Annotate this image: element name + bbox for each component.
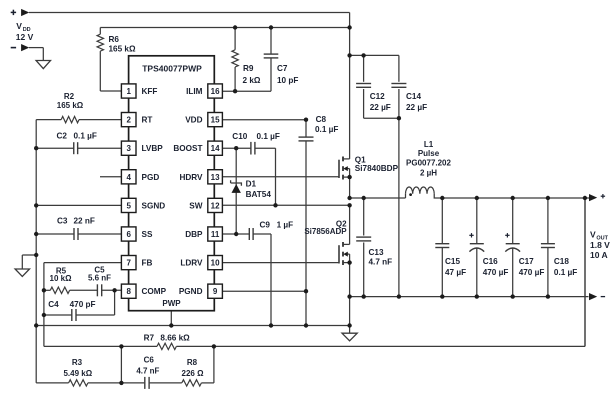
svg-text:6: 6 — [126, 230, 131, 239]
svg-text:0.1 µF: 0.1 µF — [257, 132, 280, 141]
svg-text:2 µH: 2 µH — [420, 168, 437, 177]
svg-text:PWP: PWP — [162, 299, 181, 308]
svg-text:COMP: COMP — [142, 287, 167, 296]
svg-text:3: 3 — [126, 144, 131, 153]
svg-text:14: 14 — [211, 144, 220, 153]
svg-text:13: 13 — [211, 173, 220, 182]
svg-text:22 µF: 22 µF — [370, 103, 391, 112]
svg-text:SW: SW — [189, 201, 202, 210]
svg-text:16: 16 — [211, 87, 220, 96]
svg-text:1: 1 — [126, 87, 131, 96]
svg-text:TPS40077PWP: TPS40077PWP — [142, 64, 202, 74]
svg-text:C13: C13 — [369, 248, 384, 257]
svg-text:ILIM: ILIM — [186, 87, 203, 96]
svg-text:7: 7 — [126, 259, 131, 268]
svg-text:470 pF: 470 pF — [70, 300, 96, 309]
svg-text:15: 15 — [211, 116, 220, 125]
svg-text:0.1 µF: 0.1 µF — [554, 268, 577, 277]
svg-text:C15: C15 — [445, 257, 460, 266]
svg-text:12: 12 — [211, 201, 220, 210]
svg-text:V: V — [590, 230, 596, 240]
svg-text:HDRV: HDRV — [179, 173, 203, 182]
svg-text:10 A: 10 A — [590, 250, 608, 260]
svg-text:SGND: SGND — [142, 201, 166, 210]
svg-text:R2: R2 — [64, 92, 75, 101]
svg-text:SS: SS — [142, 230, 153, 239]
svg-text:0.1 µF: 0.1 µF — [74, 132, 97, 141]
svg-text:10 pF: 10 pF — [277, 76, 298, 85]
svg-text:Si7840BDP: Si7840BDP — [355, 164, 399, 173]
svg-text:C9: C9 — [260, 221, 271, 230]
svg-text:V: V — [16, 21, 22, 31]
svg-text:LVBP: LVBP — [142, 144, 164, 153]
svg-text:10 kΩ: 10 kΩ — [50, 274, 73, 283]
svg-text:C6: C6 — [144, 356, 155, 365]
svg-text:226 Ω: 226 Ω — [182, 369, 205, 378]
svg-text:C4: C4 — [48, 300, 59, 309]
svg-text:470 µF: 470 µF — [483, 268, 509, 277]
svg-text:C2: C2 — [57, 132, 68, 141]
svg-text:FB: FB — [142, 259, 153, 268]
svg-text:PGND: PGND — [179, 287, 203, 296]
svg-text:R8: R8 — [187, 358, 198, 367]
svg-text:4: 4 — [126, 173, 131, 182]
svg-text:11: 11 — [211, 230, 220, 239]
svg-text:R9: R9 — [243, 64, 254, 73]
svg-text:2 kΩ: 2 kΩ — [243, 76, 261, 85]
svg-text:22 nF: 22 nF — [74, 217, 95, 226]
svg-text:LDRV: LDRV — [180, 259, 203, 268]
svg-text:Pulse: Pulse — [418, 149, 440, 158]
svg-text:1 µF: 1 µF — [277, 221, 294, 230]
svg-text:C10: C10 — [232, 132, 247, 141]
svg-text:KFF: KFF — [142, 87, 158, 96]
svg-text:BOOST: BOOST — [173, 144, 202, 153]
svg-text:8: 8 — [126, 287, 131, 296]
svg-text:RT: RT — [142, 116, 153, 125]
svg-text:C17: C17 — [519, 257, 534, 266]
svg-text:L1: L1 — [424, 140, 434, 149]
svg-text:10: 10 — [211, 259, 220, 268]
svg-text:165 kΩ: 165 kΩ — [57, 101, 84, 110]
svg-text:47 µF: 47 µF — [445, 268, 466, 277]
svg-text:4.7 nF: 4.7 nF — [136, 367, 159, 376]
svg-text:470 µF: 470 µF — [519, 268, 545, 277]
svg-text:BAT54: BAT54 — [246, 190, 272, 199]
svg-text:9: 9 — [213, 287, 218, 296]
svg-text:R3: R3 — [72, 358, 83, 367]
svg-text:5.6 nF: 5.6 nF — [88, 273, 111, 282]
svg-text:D1: D1 — [246, 180, 257, 189]
svg-text:VDD: VDD — [185, 116, 202, 125]
svg-text:5: 5 — [126, 201, 131, 210]
svg-text:DBP: DBP — [185, 230, 203, 239]
svg-text:0.1 µF: 0.1 µF — [315, 125, 338, 134]
svg-text:Si7856ADP: Si7856ADP — [304, 227, 347, 236]
svg-text:C16: C16 — [483, 257, 498, 266]
svg-text:C14: C14 — [406, 92, 421, 101]
svg-text:2: 2 — [126, 116, 131, 125]
svg-text:R6: R6 — [109, 35, 120, 44]
svg-text:PGD: PGD — [142, 173, 160, 182]
svg-text:22 µF: 22 µF — [406, 103, 427, 112]
svg-text:4.7 nF: 4.7 nF — [369, 258, 393, 267]
svg-text:C7: C7 — [277, 64, 288, 73]
svg-text:C18: C18 — [554, 257, 569, 266]
svg-text:R7: R7 — [144, 333, 155, 342]
svg-text:165 kΩ: 165 kΩ — [109, 45, 136, 54]
svg-text:1.8 V: 1.8 V — [590, 240, 610, 250]
svg-text:C8: C8 — [316, 115, 327, 124]
svg-text:12 V: 12 V — [16, 32, 34, 42]
svg-text:PG0077.202: PG0077.202 — [406, 159, 451, 168]
svg-text:8.66 kΩ: 8.66 kΩ — [160, 333, 190, 342]
svg-text:C12: C12 — [370, 92, 385, 101]
svg-text:C3: C3 — [57, 217, 68, 226]
svg-text:5.49 kΩ: 5.49 kΩ — [63, 369, 92, 378]
